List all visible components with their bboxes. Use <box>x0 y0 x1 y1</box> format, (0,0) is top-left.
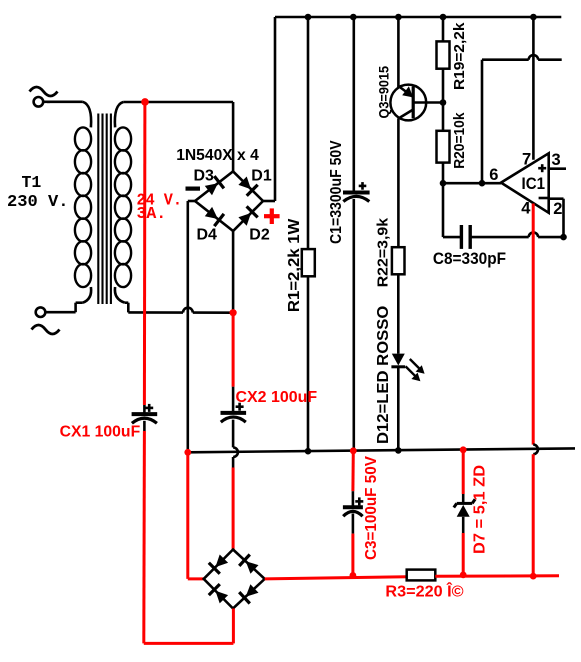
wire secondary node down to CX1 (red) <box>143 102 147 405</box>
LED D12 (red LED) <box>391 354 405 451</box>
label R19=2,2k <box>451 22 468 90</box>
transformer T1 primary terminal (top) with AC tilde <box>30 87 58 107</box>
wire R1 to ground rail <box>307 276 310 451</box>
node red bus-pin4 (red) <box>530 573 537 580</box>
label 1N540X x 4 <box>176 147 259 164</box>
label 230 V. <box>7 192 69 211</box>
plus mark CX2 <box>236 403 244 411</box>
wire bridge bottom corner down to CX2 node <box>232 231 235 313</box>
node bus-R1 <box>305 14 312 21</box>
node bus-Q3 <box>395 14 402 21</box>
wire R3 to right end of red bus (red) <box>435 574 559 578</box>
plus mark C3 <box>355 497 363 505</box>
wire IC1 pin4 down (red) <box>532 204 535 445</box>
node ground-D12 <box>395 447 402 454</box>
resistor R1 <box>302 249 315 276</box>
resistor R3 <box>407 570 436 581</box>
label CX1 100uF (red) <box>60 424 141 441</box>
op-amp minus input mark <box>539 197 548 200</box>
svg-text:D1: D1 <box>251 168 272 185</box>
wire base node to R20 <box>442 103 445 131</box>
wire pin6 horizontal <box>443 182 501 185</box>
svg-text:7: 7 <box>522 151 531 169</box>
resistor R22 <box>392 247 405 274</box>
wire ground rail <box>188 448 575 452</box>
svg-text:D4: D4 <box>197 226 218 243</box>
wire CX1 bottom loop (red) <box>144 609 234 644</box>
node ground-D7 (red) <box>460 446 467 453</box>
svg-text:R3=220 Î©: R3=220 Î© <box>385 582 464 600</box>
svg-text:D7 = 5,1 ZD: D7 = 5,1 ZD <box>471 465 488 554</box>
lower bridge diamond wires <box>204 550 265 609</box>
label C3=100uF 50V (red) <box>363 455 380 560</box>
svg-text:230 V.: 230 V. <box>7 192 69 211</box>
node R20-C8-pin6 junction <box>440 180 447 187</box>
wire ground to C3 (red) <box>351 451 354 491</box>
label CX2 100uF (red) <box>236 389 318 406</box>
node C8-pin2 junction <box>560 234 567 241</box>
node ground-negative rail junction (red) <box>184 449 191 456</box>
transformer T1 primary winding <box>75 127 91 287</box>
wire bridge + output to right riser <box>263 17 275 201</box>
wire secondary bottom (hop over vertical wire) to CX2 node <box>183 308 233 313</box>
wire CX2 hop over ground rail <box>233 447 238 457</box>
node feedback riser junction <box>479 180 486 187</box>
svg-text:R22=3,9k: R22=3,9k <box>374 217 391 287</box>
label R3=220 ohm (red) <box>385 582 464 600</box>
label D1 <box>251 168 272 185</box>
node ground-C1/C3 (red) <box>350 447 357 454</box>
diode D1 <box>238 177 257 196</box>
wire Q3 collector down to R22 <box>397 119 400 248</box>
svg-text:C3=100uF 50V: C3=100uF 50V <box>363 455 380 560</box>
wire primary bottom lead with step <box>45 287 91 312</box>
capacitor CX2 100uF <box>221 387 247 448</box>
label C1=3300uF 50V <box>328 140 345 244</box>
wire secondary top lead <box>115 102 233 127</box>
resistor R20 <box>437 131 450 163</box>
label 24 V. (red) <box>137 190 183 209</box>
node CX2 top junction (red) <box>230 309 237 316</box>
capacitor C8 330pF <box>461 225 470 249</box>
minus sign at bridge negative output <box>186 187 201 191</box>
op-amp IC1 triangle <box>501 153 549 213</box>
op-amp plus input mark <box>538 164 546 172</box>
wire secondary bottom lead with step <box>115 287 183 313</box>
lower bridge diode (bottom-left) <box>209 584 228 603</box>
svg-text:R1=2,2k 1W: R1=2,2k 1W <box>286 218 303 312</box>
wire bus to Q3 emitter <box>397 17 400 87</box>
wire R22 to LED D12 <box>397 274 400 353</box>
label pin 7 <box>522 151 531 169</box>
label pin 3 <box>552 151 561 169</box>
plus mark C1 <box>359 182 367 190</box>
svg-text:2: 2 <box>553 200 562 218</box>
label D3 <box>194 168 215 185</box>
node red bus-C3 (red) <box>350 572 357 579</box>
label D4 <box>197 226 218 243</box>
wire negative rail vertical (x=188) <box>187 201 190 452</box>
svg-text:T1: T1 <box>22 173 42 192</box>
wire bus to R1 <box>307 17 310 249</box>
lower bridge diode (bottom-right) <box>239 584 258 603</box>
transistor Q3 (PNP 9015) <box>390 85 443 121</box>
label Q3=9015 <box>375 66 391 119</box>
diode D4 <box>205 207 224 226</box>
wire lower bridge output to R3 (red) <box>265 577 407 579</box>
wire D7 to red bus (red) <box>462 533 465 575</box>
wire R20 to pin6 rail <box>442 163 445 184</box>
diode D3 <box>205 176 224 195</box>
svg-text:D3: D3 <box>194 168 215 185</box>
wire bus to R19 <box>442 17 445 41</box>
svg-text:C8=330pF: C8=330pF <box>433 250 506 268</box>
capacitor CX1 100uF <box>132 405 158 431</box>
node secondary top junction (red) <box>141 98 149 106</box>
lower bridge diode (top-left) <box>209 555 228 574</box>
wire IC1 pin2 (- input) loop <box>549 199 564 237</box>
LED D12 emission arrows <box>406 359 425 381</box>
zener diode D7 5,1V <box>454 494 475 533</box>
wire bridge - output stub <box>188 200 195 203</box>
wire CX2 to lower bridge (black then red) <box>232 457 235 550</box>
wire top positive bus <box>275 16 561 19</box>
label D7 = 5,1 ZD (red) <box>471 465 488 554</box>
label D2 <box>249 226 270 243</box>
label pin 6 <box>489 166 498 184</box>
resistor R19 <box>437 41 450 68</box>
label IC1 <box>522 175 546 193</box>
capacitor C1 3300uF 50V <box>343 193 370 452</box>
diode D2 <box>238 206 257 225</box>
label D12=LED ROSSO <box>375 306 392 444</box>
wire R19 to base node <box>442 69 445 103</box>
transformer T1 core <box>98 114 111 305</box>
node red bus-D7 (red) <box>460 572 467 579</box>
svg-text:CX1 100uF: CX1 100uF <box>60 424 141 441</box>
wire ground to D7 (red) <box>462 450 465 494</box>
wire CX2 node down (red segment) <box>232 313 235 387</box>
node bus-IC1 pin7 <box>530 14 537 21</box>
node bus-C1 <box>350 14 357 21</box>
svg-text:3A.: 3A. <box>137 204 167 223</box>
wire IC1 pin3 (+ input) <box>549 167 566 170</box>
svg-text:6: 6 <box>489 166 498 184</box>
svg-text:D12=LED ROSSO: D12=LED ROSSO <box>375 306 392 444</box>
node bus-R19 <box>440 14 447 21</box>
wire pin4 hop over ground rail <box>533 445 538 455</box>
svg-text:4: 4 <box>521 199 531 217</box>
wire primary top lead <box>47 102 91 128</box>
svg-text:D2: D2 <box>249 226 270 243</box>
label R22=3,9k <box>374 217 391 287</box>
label R20=10k <box>451 112 468 169</box>
wire bus to C1 <box>352 17 355 193</box>
label 3A. (red) <box>137 204 167 223</box>
wire feedback riser up <box>481 60 484 184</box>
svg-text:Q3=9015: Q3=9015 <box>375 66 391 119</box>
svg-text:1N540X x 4: 1N540X x 4 <box>176 147 259 164</box>
wire IC1 pin7 from bus <box>532 17 535 160</box>
wire feedback top horizontal with hop over pin7 wire <box>482 55 562 60</box>
wire C3 to red bus (red) <box>351 534 354 576</box>
node ground-R1 <box>305 448 312 455</box>
wire negative rail to lower bridge (red) <box>188 452 204 579</box>
label C8=330pF <box>433 250 506 268</box>
label R1=2,2k 1W <box>286 218 303 312</box>
label pin 2 <box>553 200 562 218</box>
label T1 <box>22 173 42 192</box>
capacitor C3 100uF 50V <box>343 491 363 533</box>
svg-text:C1=3300uF 50V: C1=3300uF 50V <box>328 140 345 244</box>
transformer T1 primary terminal (bottom) with AC tilde <box>32 307 60 334</box>
plus mark CX1 <box>145 404 153 412</box>
wire C8 to pin2 corner with hop over pin4 wire <box>470 232 563 237</box>
bridge rectifier diamond wires <box>195 171 263 231</box>
label pin 4 <box>521 199 531 217</box>
wire pin4 down to bottom red bus (red) <box>532 454 535 576</box>
svg-text:R19=2,2k: R19=2,2k <box>451 22 468 90</box>
plus sign at bridge positive output (red) <box>264 208 280 224</box>
svg-text:IC1: IC1 <box>522 175 546 193</box>
wire CX1 down to bottom loop (red) <box>142 431 146 643</box>
wire pin6 node down to C8 <box>443 183 461 237</box>
svg-text:3: 3 <box>552 151 561 169</box>
transformer T1 secondary winding <box>115 127 131 287</box>
svg-text:R20=10k: R20=10k <box>451 112 468 169</box>
wire secondary top to bridge top corner <box>232 102 235 171</box>
node Q3 base junction <box>440 99 447 106</box>
svg-text:CX2 100uF: CX2 100uF <box>236 389 318 406</box>
lower bridge diode (top-right) <box>239 555 258 574</box>
